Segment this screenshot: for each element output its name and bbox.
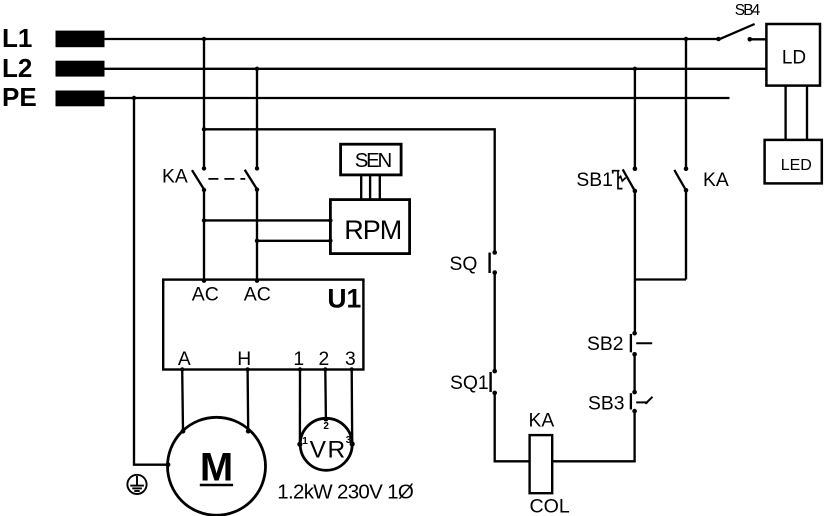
svg-text:M: M (200, 446, 233, 490)
node U1 AC1 (202, 279, 206, 283)
svg-text:SQ: SQ (450, 254, 478, 275)
contact KA right pole (255, 166, 259, 170)
wire control feed (204, 129, 495, 252)
node L2 tap (255, 67, 259, 71)
svg-text:SB1: SB1 (576, 170, 612, 191)
wire L2 to SB1 (634, 69, 636, 169)
wire KA left to U1 (203, 190, 205, 281)
svg-text:KA: KA (703, 170, 729, 191)
box LD (766, 24, 820, 86)
node U1 A (180, 367, 184, 371)
svg-text:H: H (237, 349, 251, 370)
wire L2 bus (105, 68, 767, 70)
box U1 (163, 280, 363, 370)
wire coil to SB3 branch (552, 411, 634, 461)
svg-text:SEN: SEN (355, 150, 393, 172)
node U1 2 (323, 367, 327, 371)
svg-text:KA: KA (162, 167, 188, 188)
node feed junction (202, 127, 206, 131)
svg-text:U1: U1 (327, 283, 361, 313)
svg-text:SB3: SB3 (588, 394, 624, 415)
wire U1 1 to VR (299, 370, 301, 445)
wire KA right to U1 (256, 190, 258, 281)
svg-text:1.2kW 230V 1Ø: 1.2kW 230V 1Ø (277, 481, 414, 504)
svg-text:LED: LED (781, 157, 812, 174)
svg-text:3: 3 (345, 349, 356, 370)
wire L2 dropper (256, 69, 258, 169)
wire SB4 to LD (750, 38, 767, 40)
wire PE dropper (134, 98, 168, 465)
box SEN (341, 144, 402, 175)
wire U1 3 to VR (351, 370, 354, 445)
svg-text:1: 1 (293, 349, 304, 370)
node L1 tap (202, 37, 206, 41)
contact KA left pole (202, 166, 206, 170)
wire SB1 chain down (634, 191, 636, 333)
svg-text:LD: LD (782, 48, 806, 69)
wire L1 dropper (203, 39, 205, 168)
wires LD to LED (784, 86, 786, 140)
coil KA (530, 435, 553, 493)
wire SB2 to SB3 (633, 354, 635, 392)
box LED (765, 140, 822, 184)
wire SQ to SQ1 (494, 273, 496, 372)
node U1 1 (298, 367, 302, 371)
svg-text:2: 2 (319, 349, 330, 370)
wire connector SB1-KA (635, 278, 686, 280)
svg-text:AC: AC (192, 284, 219, 306)
svg-text:L1: L1 (2, 23, 32, 53)
wire U1 A to motor (181, 370, 184, 432)
wire RPM feed 1 (204, 219, 330, 221)
ground protective earth (127, 475, 146, 494)
svg-text:RPM: RPM (344, 215, 402, 245)
box RPM U2 (330, 200, 409, 254)
svg-text:A: A (178, 349, 191, 370)
terminal PE (56, 91, 105, 107)
wire U1 H to motor (246, 370, 249, 432)
node U1 H (245, 367, 249, 371)
svg-text:AC: AC (244, 284, 271, 306)
node U1 AC2 (255, 279, 259, 283)
wire KA to connector (685, 190, 687, 279)
svg-text:COL: COL (530, 495, 570, 516)
wire L1 bus (105, 38, 719, 40)
potentiometer VR (300, 418, 352, 470)
node PE tap (132, 96, 136, 100)
svg-text:1: 1 (302, 436, 308, 447)
svg-text:PE: PE (2, 82, 37, 112)
wire SQ1 to coil (495, 393, 530, 461)
node U1 3 (350, 367, 354, 371)
terminal L2 (56, 61, 105, 77)
wire RPM feed 2 (257, 240, 330, 242)
svg-text:2: 2 (323, 421, 329, 432)
svg-text:SB4: SB4 (735, 2, 761, 19)
svg-text:L2: L2 (2, 53, 32, 83)
svg-text:KA: KA (529, 411, 555, 432)
wires SEN to RPM (360, 175, 362, 200)
mechanical link dashed (208, 178, 245, 180)
motor M1 (168, 417, 266, 515)
wire U1 2 to VR (324, 370, 327, 420)
svg-text:SB2: SB2 (587, 334, 623, 355)
svg-text:VR: VR (310, 436, 346, 463)
node motor left (166, 462, 171, 467)
svg-text:3: 3 (346, 435, 352, 446)
terminal L1 (56, 31, 105, 48)
wire PE bus (105, 97, 730, 99)
svg-text:SQ1: SQ1 (450, 373, 489, 394)
